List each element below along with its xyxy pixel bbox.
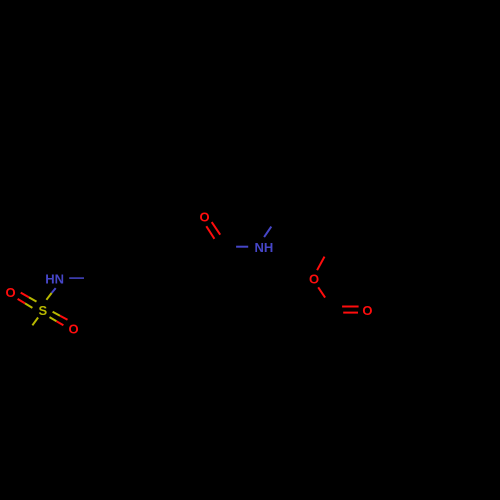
wire S=O2 double bond line B red half bbox=[57, 321, 64, 325]
wire S=O2 double bond line A red half bbox=[60, 316, 68, 320]
svg-text:O: O bbox=[199, 210, 209, 225]
svg-text:O: O bbox=[309, 271, 319, 286]
wire N-C(aryl) blue stub bbox=[69, 277, 84, 279]
wire S=O1 double bond line A olive half bbox=[29, 297, 37, 301]
wire S=O1 double bond line B red half bbox=[18, 299, 25, 304]
svg-text:O: O bbox=[68, 322, 78, 337]
wire S=O2 double bond line A olive half bbox=[53, 312, 60, 316]
wire S-CH3 stub (olive) bbox=[32, 318, 38, 326]
svg-text:O: O bbox=[6, 285, 16, 300]
wire amide N-CH2 stub (blue) bbox=[264, 227, 271, 238]
svg-text:NH: NH bbox=[255, 240, 274, 255]
wire S=O1 double bond line A red half bbox=[21, 293, 29, 298]
wire S=O1 double bond line B olive half bbox=[25, 303, 32, 308]
wire amide C=O double bond left line (red) bbox=[206, 226, 214, 239]
wire ester C=O5 upper line (red) bbox=[342, 306, 359, 308]
wire ester C=O5 lower line (red) bbox=[343, 312, 358, 314]
wire N-S bond upper half (blue) bbox=[52, 288, 56, 293]
svg-text:S: S bbox=[38, 303, 47, 318]
wire amide C-N stub (blue) bbox=[236, 246, 248, 248]
svg-text:HN: HN bbox=[45, 272, 64, 287]
wire N-S bond lower half (olive) bbox=[46, 293, 51, 300]
svg-text:O: O bbox=[362, 303, 372, 318]
wire S=O2 double bond line B olive half bbox=[50, 317, 57, 321]
wire amide C=O double bond right line (red) bbox=[212, 222, 221, 235]
wire aryl-O4 stub (red) bbox=[317, 257, 324, 271]
wire O4-C(=O) stub (red) bbox=[318, 287, 325, 297]
